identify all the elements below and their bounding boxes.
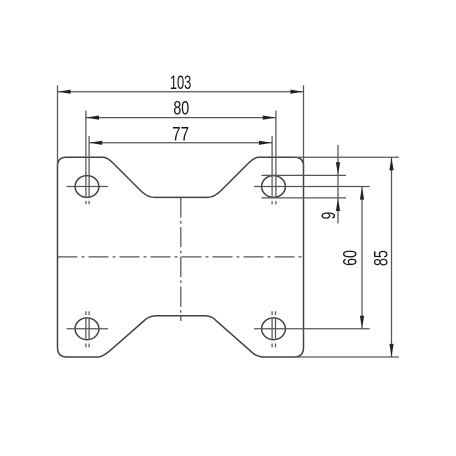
arrow 85 down [389, 344, 393, 357]
dimension 60 line [361, 187, 363, 329]
bottom-left hole center marks [85, 311, 87, 347]
103 extension right [303, 85, 305, 167]
arrow 77 left [89, 141, 102, 145]
arrow 103 right [290, 90, 303, 94]
85 top extension line [294, 156, 399, 158]
svg-text:103: 103 [170, 73, 192, 94]
85 bottom extension line [294, 356, 399, 358]
svg-text:77: 77 [172, 123, 189, 145]
hole bottom-left [75, 318, 99, 340]
hole bottom-right [262, 318, 286, 340]
svg-text:85: 85 [371, 250, 392, 266]
77 extension left [88, 136, 90, 204]
dimension 80 line [86, 117, 276, 119]
arrow 85 up [389, 157, 393, 170]
arrow 60 up [360, 187, 364, 200]
crosshair top-left hole [67, 186, 109, 188]
hole top-right [262, 176, 286, 198]
crosshair + 60-extension top-right hole [254, 186, 370, 188]
dimension 9 line [337, 145, 339, 224]
arrow 103 left [58, 90, 71, 94]
centerline vertical [180, 197, 182, 321]
103 extension left [57, 85, 59, 167]
dimension 103 line [58, 91, 304, 93]
centerline horizontal [58, 256, 304, 258]
svg-text:80: 80 [173, 98, 189, 119]
77 extension right [271, 136, 273, 204]
arrow 77 right [259, 141, 272, 145]
plate outline [58, 157, 304, 357]
svg-text:9: 9 [318, 212, 340, 220]
dimension 77 line [89, 142, 272, 144]
9 hole-top extension [262, 174, 347, 176]
dimension 85 line [391, 157, 393, 357]
crosshair + 60-extension bottom-right hole [254, 328, 370, 330]
arrow 80 right [263, 116, 276, 120]
9 hole-bottom extension [262, 197, 347, 199]
svg-text:60: 60 [339, 250, 360, 266]
arrow 9 down [336, 162, 340, 175]
crosshair bottom-left hole [67, 328, 109, 330]
80 extension right [275, 111, 277, 205]
arrow 60 down [360, 316, 364, 329]
hole top-left [75, 176, 99, 198]
arrow 80 left [86, 116, 99, 120]
80 extension left [85, 111, 87, 205]
bottom-right hole center marks [271, 311, 273, 347]
arrow 9 up [336, 198, 340, 211]
